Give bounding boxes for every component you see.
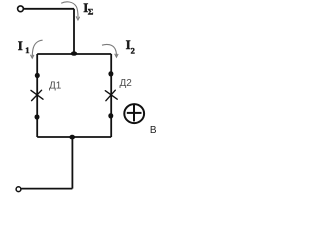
svg-text:2: 2 [131, 46, 135, 56]
svg-text:1: 1 [25, 45, 29, 55]
svg-text:Д1: Д1 [49, 81, 62, 92]
svg-text:В: В [150, 125, 157, 136]
svg-text:Σ: Σ [88, 7, 94, 17]
svg-text:I: I [18, 38, 23, 53]
svg-text:Д2: Д2 [120, 78, 133, 89]
